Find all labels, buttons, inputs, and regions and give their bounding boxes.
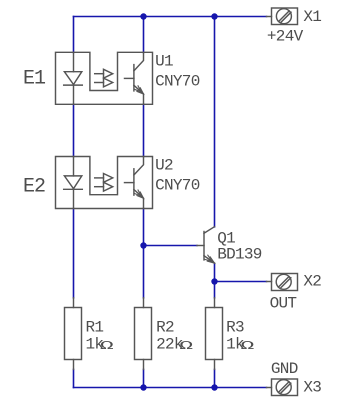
wire U1 emitter to U2 collector xyxy=(143,104,145,156)
svg-text:OUT: OUT xyxy=(270,295,297,313)
value 1k ohm of R1 xyxy=(86,336,114,354)
svg-text:GND: GND xyxy=(271,360,298,378)
svg-text:E1: E1 xyxy=(23,68,46,91)
label X3 xyxy=(303,378,321,396)
label X2 xyxy=(303,273,321,291)
svg-text:CNY70: CNY70 xyxy=(155,177,200,195)
value CNY70 of U2 xyxy=(155,177,200,195)
svg-text:X2: X2 xyxy=(303,273,321,291)
label U2 xyxy=(155,157,173,175)
wire emitter node to X2 xyxy=(215,281,267,283)
wire top rail +24V net xyxy=(74,16,267,18)
svg-text:X3: X3 xyxy=(303,378,321,396)
optocoupler U1 CNY70 outline xyxy=(56,52,153,104)
terminal X3 xyxy=(267,379,298,396)
transistor Q1 collector xyxy=(204,227,215,234)
label R2 xyxy=(156,318,174,336)
transistor Q1 emitter xyxy=(204,255,215,263)
svg-text:U2: U2 xyxy=(155,157,173,175)
transistor Q1 base bar xyxy=(203,232,205,260)
wire Q1 emitter down to R3 xyxy=(214,264,216,298)
svg-text:CNY70: CNY70 xyxy=(155,73,200,91)
svg-text:Ω: Ω xyxy=(100,340,114,353)
wire E1 cathode to E2 anode xyxy=(73,104,75,156)
junction top rail at right vertical xyxy=(211,13,217,19)
wire R1 bottom to ground rail xyxy=(73,369,75,387)
svg-text:+24V: +24V xyxy=(267,27,304,45)
value 22k ohm of R2 xyxy=(156,336,193,354)
resistor R1 xyxy=(65,298,82,370)
terminal X2 xyxy=(267,274,298,291)
label X1 xyxy=(303,8,321,26)
svg-text:Ω: Ω xyxy=(179,340,193,353)
svg-text:R1: R1 xyxy=(86,318,104,336)
label E1 xyxy=(23,68,46,91)
optocoupler U2 light arrows xyxy=(95,174,113,192)
label E2 xyxy=(23,176,45,199)
optocoupler U2 LED xyxy=(64,157,83,209)
label R1 xyxy=(86,318,104,336)
wire U2 emitter down to R2 xyxy=(143,209,145,298)
wire bottom ground rail xyxy=(74,387,267,389)
resistor R3 xyxy=(206,298,223,370)
terminal X1 xyxy=(267,8,298,25)
net label OUT xyxy=(270,295,297,313)
wire mid vertical rail to U1 collector xyxy=(143,17,145,53)
net label GND xyxy=(271,360,298,378)
svg-text:U1: U1 xyxy=(155,52,173,70)
label Q1 xyxy=(217,229,235,247)
svg-text:X1: X1 xyxy=(303,8,321,26)
optocoupler U1 phototransistor xyxy=(125,52,144,104)
wire E2 cathode down to R1 xyxy=(73,209,75,298)
svg-text:R2: R2 xyxy=(156,318,174,336)
value CNY70 of U1 xyxy=(155,73,200,91)
svg-text:E2: E2 xyxy=(23,176,45,199)
svg-text:Q1: Q1 xyxy=(217,229,235,247)
wire left vertical from rail to E1 anode xyxy=(73,17,75,53)
junction Q1 emitter / OUT node xyxy=(211,278,217,284)
optocoupler U1 light arrows xyxy=(95,69,113,87)
junction Q1 base node xyxy=(140,242,146,248)
resistor R2 xyxy=(135,298,152,370)
junction ground rail at R2 xyxy=(140,384,146,390)
transistor Q1 BD139 base pin xyxy=(197,245,204,247)
svg-text:R3: R3 xyxy=(226,318,244,336)
net label +24V xyxy=(267,27,304,45)
label U1 xyxy=(155,52,173,70)
junction ground rail at R3 xyxy=(211,384,217,390)
optocoupler U1 LED xyxy=(64,52,83,104)
wire node to Q1 base xyxy=(144,245,198,247)
value BD139 of Q1 xyxy=(217,246,262,264)
svg-text:Ω: Ω xyxy=(241,340,255,353)
svg-text:BD139: BD139 xyxy=(217,246,262,264)
label R3 xyxy=(226,318,244,336)
wire R2 bottom to ground rail xyxy=(143,369,145,387)
optocoupler U2 phototransistor xyxy=(125,157,144,209)
wire R3 bottom to ground rail xyxy=(214,369,216,387)
junction top rail at mid vertical xyxy=(140,13,146,19)
optocoupler U2 CNY70 outline xyxy=(56,157,153,209)
wire right vertical rail to Q1 collector xyxy=(214,17,216,227)
value 1k ohm of R3 xyxy=(226,336,254,354)
